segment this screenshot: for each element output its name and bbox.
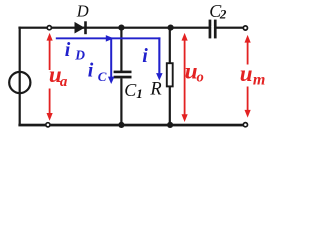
wire bottom bbox=[18, 124, 245, 127]
svg-text:a: a bbox=[60, 74, 68, 90]
wire R branch lower bbox=[169, 87, 171, 125]
svg-text:2: 2 bbox=[219, 6, 227, 21]
svg-text:D: D bbox=[76, 2, 89, 21]
svg-text:1: 1 bbox=[136, 86, 143, 101]
svg-text:o: o bbox=[197, 69, 204, 85]
terminal circle bottom right bbox=[243, 123, 247, 127]
wire through source bbox=[19, 72, 21, 93]
wire C1 branch lower bbox=[120, 78, 122, 125]
capacitor C2 right plate bbox=[214, 20, 217, 39]
blue iC vertical arrow bbox=[110, 38, 112, 77]
svg-text:C: C bbox=[98, 69, 107, 84]
arrowhead iD bbox=[106, 35, 114, 42]
red ua arrow upper segment bbox=[49, 40, 51, 70]
resistor R body bbox=[167, 63, 173, 86]
terminal circle bottom near ua bbox=[46, 123, 50, 127]
diode D cathode bar bbox=[84, 21, 87, 34]
svg-text:D: D bbox=[74, 47, 85, 62]
svg-text:i: i bbox=[65, 39, 71, 61]
red um arrow lower segment bbox=[247, 87, 249, 112]
svg-text:u: u bbox=[240, 61, 253, 86]
svg-text:i: i bbox=[142, 45, 148, 67]
svg-text:i: i bbox=[88, 60, 94, 82]
red ua arrow lower segment bbox=[49, 89, 51, 115]
node dot top R branch bbox=[168, 25, 174, 31]
svg-text:R: R bbox=[149, 80, 161, 100]
voltage source circle bbox=[9, 72, 30, 93]
node dot bottom R branch bbox=[167, 122, 173, 128]
capacitor C1 top plate bbox=[114, 71, 132, 74]
red uo arrow bbox=[184, 40, 186, 116]
blue i vertical arrow bbox=[158, 37, 160, 73]
diode D triangle bbox=[75, 22, 85, 34]
wire left vertical bbox=[19, 27, 21, 126]
capacitor C1 bottom plate bbox=[114, 76, 132, 79]
terminal circle top right bbox=[243, 26, 247, 30]
svg-text:m: m bbox=[253, 72, 265, 89]
wire R branch upper bbox=[169, 28, 171, 63]
node dot bottom C1 branch bbox=[118, 122, 124, 128]
terminal circle top near ua bbox=[47, 26, 51, 30]
blue current path horizontal bbox=[56, 37, 161, 39]
capacitor C2 left plate bbox=[209, 20, 212, 39]
red um arrow upper segment bbox=[247, 42, 249, 65]
white gap for C2 in top wire bbox=[211, 26, 214, 29]
wire C1 branch upper bbox=[120, 28, 122, 71]
node dot top C1 branch bbox=[118, 25, 124, 31]
wire top from left corner to right end bbox=[18, 27, 245, 29]
